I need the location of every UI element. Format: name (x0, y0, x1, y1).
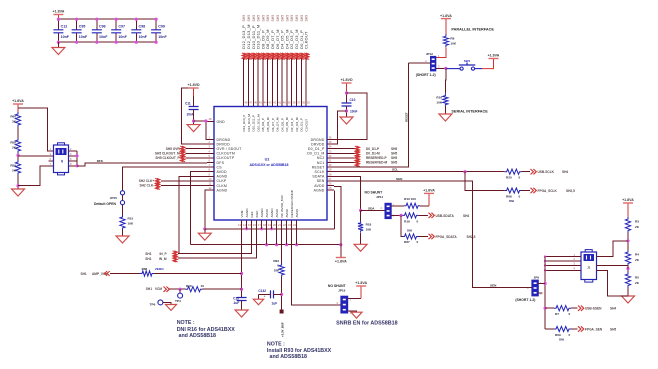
svg-text:AGND: AGND (260, 208, 264, 218)
svg-text:NOTE :: NOTE : (267, 341, 285, 347)
svg-text:0: 0 (569, 333, 571, 337)
svg-text:TP4: TP4 (175, 299, 181, 303)
svg-text:DNI: DNI (407, 229, 412, 233)
svg-text:R69: R69 (555, 333, 561, 337)
svg-text:DRVDD: DRVDD (311, 142, 325, 146)
svg-text:AGND: AGND (217, 175, 228, 179)
svg-text:ADS41XX or ADS58B18: ADS41XX or ADS58B18 (250, 163, 289, 167)
svg-text:D4_D5_M: D4_D5_M (285, 117, 289, 131)
svg-text:D2_D3_P: D2_D3_P (290, 118, 294, 131)
svg-text:D2_D3_M: D2_D3_M (295, 117, 299, 131)
svg-text:SH5: SH5 (247, 15, 251, 22)
svg-text:AGND: AGND (245, 208, 249, 218)
svg-text:10nF: 10nF (99, 35, 108, 39)
svg-text:NO SHUNT: NO SHUNT (328, 284, 347, 288)
svg-text:JP12: JP12 (426, 52, 433, 56)
svg-text:C95: C95 (79, 24, 86, 28)
svg-text:R10: R10 (436, 96, 442, 100)
svg-text:SH5: SH5 (242, 15, 246, 22)
svg-text:OVR / SDOUT: OVR / SDOUT (217, 147, 243, 151)
svg-text:SEN: SEN (490, 284, 497, 288)
svg-text:Install R93 for ADS41BXX: Install R93 for ADS41BXX (267, 348, 332, 354)
svg-text:AGND: AGND (314, 188, 325, 192)
svg-text:PARALLEL INTERFACE: PARALLEL INTERFACE (451, 27, 494, 31)
svg-text:10nF: 10nF (79, 35, 88, 39)
svg-text:R13 100: R13 100 (404, 197, 416, 201)
svg-text:USB-SSEN: USB-SSEN (585, 307, 602, 311)
svg-text:SH1: SH1 (145, 257, 151, 261)
svg-text:D10_D11_P: D10_D11_P (252, 115, 256, 132)
svg-text:IN_P: IN_P (160, 252, 168, 256)
svg-text:SH4: SH4 (562, 170, 568, 174)
svg-text:D4_D5_P: D4_D5_P (280, 118, 284, 131)
svg-text:D6_D7_M: D6_D7_M (276, 117, 280, 131)
svg-text:JP15: JP15 (110, 196, 118, 200)
svg-text:DRGND: DRGND (311, 138, 325, 142)
svg-text:SH5: SH5 (300, 15, 304, 22)
svg-text:SH2,5: SH2,5 (566, 189, 575, 193)
svg-text:SH5: SH5 (276, 15, 280, 22)
svg-text:NC /AVDD_BUF: NC /AVDD_BUF (280, 195, 284, 218)
svg-text:NOTE :: NOTE : (177, 320, 195, 326)
svg-text:+: + (264, 294, 266, 298)
svg-text:SH5: SH5 (271, 15, 275, 22)
svg-text:C97: C97 (118, 24, 125, 28)
svg-text:IREF: IREF (255, 210, 259, 217)
svg-text:+1.8VA: +1.8VA (52, 10, 64, 14)
svg-text:JP11: JP11 (376, 195, 383, 199)
svg-text:R3: R3 (635, 220, 639, 224)
svg-text:10nF: 10nF (187, 112, 194, 116)
svg-text:C98: C98 (139, 24, 146, 28)
svg-text:CS: CS (217, 165, 223, 169)
svg-text:D10_D11_M: D10_D11_M (256, 114, 260, 132)
svg-text:DNI: DNI (274, 268, 279, 272)
svg-text:10nF: 10nF (118, 35, 127, 39)
svg-text:SH4: SH4 (463, 214, 469, 218)
svg-text:+1.8VA: +1.8VA (440, 14, 452, 18)
svg-text:USB-SDATA: USB-SDATA (436, 214, 455, 218)
svg-text:SH5: SH5 (610, 328, 616, 332)
svg-text:SH1: SH1 (81, 272, 87, 276)
svg-text:10K: 10K (366, 227, 372, 231)
svg-text:R19: R19 (404, 219, 410, 223)
svg-text:D0_D1-P: D0_D1-P (366, 147, 380, 151)
svg-text:SH5: SH5 (266, 15, 270, 22)
svg-text:R5: R5 (635, 276, 639, 280)
svg-text:C99: C99 (158, 24, 165, 28)
svg-text:C11: C11 (185, 102, 191, 106)
svg-text:AVDD: AVDD (217, 170, 228, 174)
svg-text:0: 0 (569, 312, 571, 316)
svg-text:10nF: 10nF (139, 35, 148, 39)
svg-text:AVDD: AVDD (295, 208, 299, 217)
svg-text:SH1: SH1 (145, 252, 151, 256)
svg-text:R7: R7 (555, 312, 559, 316)
svg-text:+1.8VA: +1.8VA (488, 54, 500, 58)
svg-text:and ADS58B18: and ADS58B18 (270, 354, 308, 360)
svg-text:R59: R59 (10, 164, 16, 168)
svg-text:R66: R66 (142, 267, 148, 271)
svg-text:RESERVED-P: RESERVED-P (366, 156, 388, 160)
svg-text:NC1: NC1 (317, 161, 325, 165)
svg-text:+1.8VA: +1.8VA (423, 189, 435, 193)
svg-text:.1uF: .1uF (233, 301, 240, 305)
svg-text:SH5 OVR: SH5 OVR (166, 147, 181, 151)
svg-text:RESERVED-M: RESERVED-M (366, 161, 388, 165)
svg-text:R15: R15 (128, 217, 134, 221)
svg-text:SERIAL INTERFACE: SERIAL INTERFACE (451, 110, 488, 114)
svg-text:0: 0 (519, 194, 521, 198)
svg-text:DNI: DNI (509, 199, 514, 203)
svg-text:AVDD: AVDD (275, 208, 279, 217)
svg-text:+1.8VD: +1.8VD (188, 83, 200, 87)
svg-text:SH5: SH5 (305, 15, 309, 22)
svg-text:RESET: RESET (404, 112, 408, 122)
svg-text:JP9: JP9 (533, 276, 539, 280)
svg-text:FPGA_SEN: FPGA_SEN (585, 328, 603, 332)
svg-text:SCLK: SCLK (315, 170, 325, 174)
svg-text:D6_D7_P: D6_D7_P (271, 118, 275, 131)
svg-text:R16: R16 (186, 284, 192, 288)
svg-text:CLKOUTP: CLKOUTP (217, 156, 235, 160)
svg-text:SDATA: SDATA (312, 175, 325, 179)
svg-text:SH5: SH5 (257, 15, 261, 22)
svg-text:+3.3V_BUF: +3.3V_BUF (281, 322, 285, 337)
svg-text:DRVDD: DRVDD (217, 142, 231, 146)
svg-text:D8_D9_P: D8_D9_P (261, 118, 265, 131)
svg-text:R8: R8 (450, 37, 454, 41)
svg-text:AVDD: AVDD (285, 208, 289, 217)
svg-text:C10: C10 (350, 98, 356, 102)
svg-text:SNRB EN for ADS58B18: SNRB EN for ADS58B18 (336, 321, 398, 327)
svg-text:(SHORT 1-2): (SHORT 1-2) (416, 73, 436, 77)
svg-text:SH5 CLKOUT_P: SH5 CLKOUT_P (155, 156, 180, 160)
svg-text:USB-SCLK: USB-SCLK (538, 170, 555, 174)
svg-text:CLKP: CLKP (217, 179, 227, 183)
svg-text:SH4: SH4 (610, 307, 616, 311)
svg-text:SH5: SH5 (391, 156, 397, 160)
svg-text:DNI: DNI (559, 337, 564, 341)
svg-text:SH5: SH5 (252, 15, 256, 22)
svg-text:R67: R67 (404, 240, 410, 244)
svg-text:D0_D1_P: D0_D1_P (308, 147, 325, 151)
svg-text:SH1: SH1 (146, 287, 152, 291)
svg-text:DFS: DFS (217, 161, 225, 165)
svg-text:R60: R60 (10, 115, 16, 119)
svg-text:AGND: AGND (217, 188, 228, 192)
svg-text:RESET: RESET (312, 165, 325, 169)
svg-text:SH2,5: SH2,5 (467, 235, 476, 239)
svg-text:C12: C12 (61, 24, 68, 28)
svg-text:R68: R68 (506, 194, 512, 198)
svg-text:10nF: 10nF (350, 110, 357, 114)
svg-text:JP16: JP16 (338, 288, 346, 292)
svg-text:DFS: DFS (97, 159, 103, 163)
svg-text:SH5: SH5 (290, 15, 294, 22)
svg-text:D0_D1_P: D0_D1_P (300, 118, 304, 131)
svg-text:D12_D13_P: D12_D13_P (242, 115, 246, 132)
svg-text:10K: 10K (450, 42, 456, 46)
svg-text:REF: REF (250, 211, 254, 217)
svg-text:10: 10 (201, 284, 205, 288)
svg-text:DRGND: DRGND (217, 138, 231, 142)
svg-text:10nF: 10nF (158, 35, 167, 39)
svg-text:AGND: AGND (270, 208, 274, 218)
svg-text:R93: R93 (273, 259, 279, 263)
svg-text:(SHORT 1-2): (SHORT 1-2) (515, 298, 535, 302)
svg-text:+1.8VA: +1.8VA (355, 281, 367, 285)
svg-text:ZERO: ZERO (155, 267, 164, 271)
svg-text:C13: C13 (233, 296, 239, 300)
svg-text:C96: C96 (99, 24, 106, 28)
svg-text:RESERVED /SNRB: RESERVED /SNRB (290, 190, 294, 217)
svg-text:SH5: SH5 (261, 15, 265, 22)
svg-text:D0_D1-M: D0_D1-M (366, 152, 380, 156)
svg-text:J2: J2 (60, 159, 64, 163)
svg-text:D0_D1_M: D0_D1_M (307, 152, 324, 156)
svg-text:10K: 10K (436, 101, 442, 105)
svg-text:AVDD: AVDD (265, 208, 269, 217)
svg-text:SCL: SCL (392, 168, 398, 172)
svg-text:FPGA_SDATA: FPGA_SDATA (436, 235, 458, 239)
svg-text:SH2 CLK+: SH2 CLK+ (139, 179, 155, 183)
svg-text:SEN: SEN (317, 179, 325, 183)
svg-text:U1: U1 (265, 158, 270, 162)
svg-text:0: 0 (277, 264, 279, 268)
svg-text:R4: R4 (635, 253, 639, 257)
svg-text:0: 0 (417, 240, 419, 244)
svg-text:R20: R20 (506, 176, 512, 180)
svg-text:CLKOUT: CLKOUT (304, 31, 309, 49)
svg-text:SH5: SH5 (391, 152, 397, 156)
svg-text:R58: R58 (10, 141, 16, 145)
svg-text:SH5 CLKOUT_M: SH5 CLKOUT_M (155, 152, 180, 156)
svg-text:SH5: SH5 (391, 147, 397, 151)
svg-text:SDA: SDA (368, 206, 375, 210)
svg-text:10nF: 10nF (61, 35, 70, 39)
svg-text:SH5: SH5 (295, 15, 299, 22)
svg-text:+1.8VD: +1.8VD (340, 78, 352, 82)
svg-text:SH5: SH5 (391, 161, 397, 165)
svg-text:GND: GND (217, 120, 226, 124)
svg-text:0: 0 (519, 176, 521, 180)
svg-text:SH5: SH5 (281, 15, 285, 22)
svg-text:CLKOUTM: CLKOUTM (217, 152, 236, 156)
svg-text:VCM: VCM (240, 210, 244, 217)
svg-text:D12_D13_M: D12_D13_M (247, 114, 251, 132)
svg-text:C142: C142 (258, 289, 266, 293)
svg-text:J1: J1 (587, 266, 591, 270)
svg-text:NC2: NC2 (317, 156, 325, 160)
svg-text:CLKM: CLKM (217, 184, 228, 188)
svg-text:Default OPEN: Default OPEN (94, 202, 117, 206)
svg-text:VCM: VCM (155, 287, 162, 291)
svg-text:AVDD: AVDD (314, 184, 325, 188)
svg-text:SEN: SEN (396, 177, 403, 181)
svg-text:FPGA_SCLK: FPGA_SCLK (538, 189, 558, 193)
svg-text:+1.8VA: +1.8VA (12, 99, 24, 103)
svg-text:SH2 CLK-: SH2 CLK- (139, 184, 154, 188)
svg-text:0: 0 (417, 219, 419, 223)
svg-text:1uF: 1uF (272, 302, 278, 306)
svg-text:+1.8VA: +1.8VA (622, 198, 634, 202)
svg-text:CLKOUT: CLKOUT (304, 119, 308, 132)
svg-text:+1.8VA: +1.8VA (335, 260, 347, 264)
svg-text:and ADS58B18: and ADS58B18 (179, 333, 217, 339)
svg-text:SW1: SW1 (464, 59, 471, 63)
svg-text:10K: 10K (128, 222, 134, 226)
svg-text:IN_M: IN_M (159, 257, 167, 261)
svg-text:D8_D9_M: D8_D9_M (266, 117, 270, 131)
svg-text:TP6: TP6 (150, 302, 156, 306)
svg-text:R18: R18 (366, 222, 372, 226)
svg-text:SH5: SH5 (285, 15, 289, 22)
